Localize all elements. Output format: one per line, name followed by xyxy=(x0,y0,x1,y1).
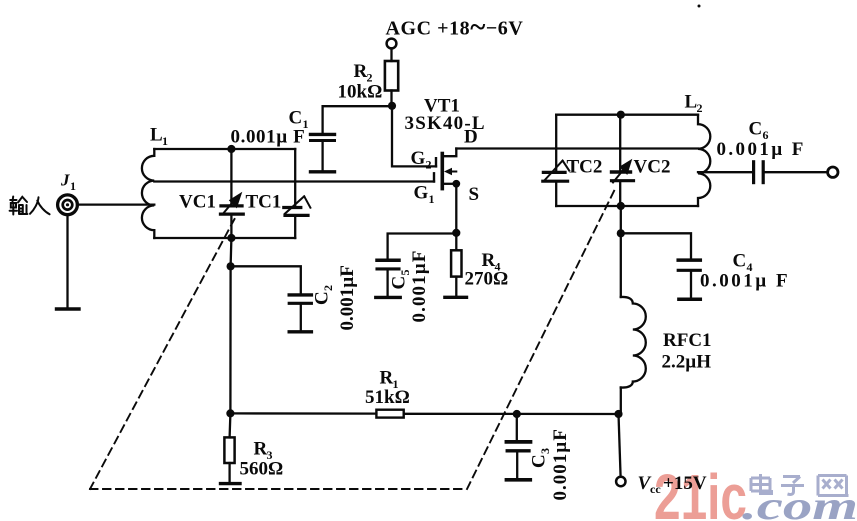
svg-text:0.001µF: 0.001µF xyxy=(337,265,358,330)
svg-text:2: 2 xyxy=(321,285,335,291)
svg-text:2.2µH: 2.2µH xyxy=(662,352,712,373)
svg-text:1: 1 xyxy=(162,134,168,148)
label C3 xyxy=(529,448,553,468)
svg-text:C: C xyxy=(289,108,303,129)
watermark 21ic xyxy=(654,461,747,521)
node tank2 top xyxy=(617,111,625,119)
svg-text:L: L xyxy=(150,125,163,146)
svg-text:TC2: TC2 xyxy=(567,157,603,178)
watermark 电子网 xyxy=(751,474,849,496)
svg-text:1: 1 xyxy=(70,179,76,193)
svg-text:S: S xyxy=(469,184,480,205)
value 0.001uF (C3) xyxy=(550,428,571,500)
ground (C1) xyxy=(311,170,335,173)
label C5 xyxy=(389,270,413,290)
svg-text:D: D xyxy=(464,127,478,148)
label R1 xyxy=(380,368,399,392)
label AGC +18~-6V xyxy=(386,11,524,43)
node C3 branch xyxy=(513,410,521,418)
wire dashed gang right xyxy=(467,186,617,489)
wire tank bottom rail xyxy=(154,237,295,239)
wire dashed gang left xyxy=(90,219,235,489)
label VT1 xyxy=(424,96,460,117)
node C2 branch xyxy=(227,262,235,270)
label RFC1 xyxy=(663,330,712,351)
svg-text:0.001µ F: 0.001µ F xyxy=(231,127,306,148)
ground (C5) xyxy=(376,296,400,299)
label C1 xyxy=(289,108,309,132)
ground (R3) xyxy=(221,482,241,485)
wire tank2 top rail xyxy=(556,114,698,116)
resistor R4 xyxy=(451,233,461,296)
label 输入 xyxy=(10,197,50,215)
node tank bottom xyxy=(227,234,235,242)
svg-text:J: J xyxy=(60,171,70,190)
capacitor C4 xyxy=(621,233,701,297)
value 0.001uF (C6) xyxy=(717,139,806,160)
label S xyxy=(469,184,480,205)
node bottom rail left xyxy=(226,409,234,417)
value 0.001uF (C4) xyxy=(700,271,790,292)
ground (R4) xyxy=(445,296,467,299)
value 2.2uH xyxy=(662,352,712,373)
wire bottom rail left segment xyxy=(230,412,376,415)
node tank2 bottom xyxy=(617,202,625,210)
svg-text:C: C xyxy=(749,119,763,140)
node R2/C1 junction xyxy=(388,102,396,110)
capacitor C6 xyxy=(698,162,827,183)
capacitor C5 xyxy=(377,234,456,296)
svg-text:RFC1: RFC1 xyxy=(663,330,712,351)
svg-text:R: R xyxy=(254,439,268,460)
wire left vertical xyxy=(230,238,231,413)
label C4 xyxy=(733,251,753,275)
inductor L1 xyxy=(142,149,154,238)
svg-text:VC2: VC2 xyxy=(634,157,671,178)
svg-text:R: R xyxy=(380,368,394,389)
stray dot xyxy=(698,5,701,8)
value 51k ohm xyxy=(365,387,410,408)
node C4 branch xyxy=(617,229,625,237)
svg-text:R: R xyxy=(354,61,368,82)
label G1 xyxy=(414,183,435,207)
resistor R2 xyxy=(385,48,398,105)
label R2 xyxy=(354,61,373,85)
svg-text:G: G xyxy=(414,183,429,204)
terminal AGC xyxy=(387,39,397,49)
wire G2 feed xyxy=(392,106,436,167)
label C2 xyxy=(312,285,336,305)
svg-text:C: C xyxy=(733,251,747,272)
svg-text:+15V: +15V xyxy=(663,473,707,494)
ground (C2) xyxy=(289,330,311,333)
svg-text:270Ω: 270Ω xyxy=(465,269,509,290)
label Vcc +15V xyxy=(638,473,707,496)
label 3SK40-L xyxy=(405,113,486,134)
wire J1 to L1 tap xyxy=(77,203,154,205)
value 270 ohm xyxy=(465,269,509,290)
capacitor C3 xyxy=(506,414,530,478)
wire G1 rail xyxy=(154,180,434,182)
svg-text:L: L xyxy=(685,92,698,113)
svg-text:G: G xyxy=(411,148,426,169)
value 560 ohm xyxy=(240,459,284,480)
inductor L2 xyxy=(698,115,710,206)
terminal output xyxy=(828,167,838,177)
label TC2 xyxy=(567,157,603,178)
node RFC1/Vcc junction xyxy=(614,410,622,418)
svg-text:0.001µ F: 0.001µ F xyxy=(700,271,790,292)
svg-text:2: 2 xyxy=(697,101,703,115)
svg-text:1: 1 xyxy=(429,192,435,206)
svg-text:560Ω: 560Ω xyxy=(240,459,284,480)
resistor R3 xyxy=(224,413,234,482)
capacitor TC2 xyxy=(543,115,569,206)
wire source down xyxy=(455,184,457,233)
svg-text:0.001µF: 0.001µF xyxy=(550,428,571,500)
label VC1 xyxy=(179,192,216,213)
wire J1 to ground xyxy=(66,214,68,308)
capacitor TC1 xyxy=(284,149,311,238)
node tank top xyxy=(227,145,235,153)
svg-text:0.001µ F: 0.001µ F xyxy=(717,139,806,160)
label R4 xyxy=(482,250,501,274)
value 0.001uF (C1) xyxy=(231,127,306,148)
capacitor C1 xyxy=(311,106,393,170)
label L2 xyxy=(685,92,703,116)
inductor RFC1 xyxy=(621,233,646,414)
value 10k ohm xyxy=(338,82,383,103)
svg-text:cc: cc xyxy=(650,482,661,496)
svg-text:51kΩ: 51kΩ xyxy=(365,387,410,408)
wire drain rail xyxy=(456,147,698,149)
resistor R1 xyxy=(376,410,403,418)
ground (J1) xyxy=(57,307,80,310)
svg-text:10kΩ: 10kΩ xyxy=(338,82,383,103)
value 0.001uF (C2) xyxy=(337,265,358,330)
ground (C3) xyxy=(506,478,530,482)
connector J1 xyxy=(58,195,78,215)
svg-text:C: C xyxy=(389,276,410,290)
wire to Vcc terminal xyxy=(619,414,621,477)
label J1 xyxy=(60,171,76,194)
label D xyxy=(464,127,478,148)
wire tank2 bottom to C4 node xyxy=(620,206,622,233)
svg-text:0.001µF: 0.001µF xyxy=(409,249,430,322)
watermark .com xyxy=(742,483,857,521)
capacitor VC2 xyxy=(612,115,634,206)
wire tank top rail xyxy=(154,148,295,150)
svg-text:VC1: VC1 xyxy=(179,192,216,213)
svg-text:C: C xyxy=(312,291,333,305)
transistor VT1 xyxy=(434,149,456,189)
wire bottom rail right segment xyxy=(404,413,619,416)
label L1 xyxy=(150,125,168,149)
capacitor VC1 xyxy=(221,149,244,238)
svg-text:TC1: TC1 xyxy=(246,192,282,213)
capacitor C2 xyxy=(231,266,312,330)
label VC2 xyxy=(634,157,671,178)
value 0.001uF (C5) xyxy=(409,249,430,322)
node source xyxy=(452,180,460,188)
node source/R4/C5 xyxy=(452,229,460,237)
svg-text:2: 2 xyxy=(426,158,432,172)
ground (C4) xyxy=(679,297,700,301)
label R3 xyxy=(254,439,273,463)
label TC1 xyxy=(246,192,282,213)
terminal Vcc xyxy=(616,477,625,486)
wire dashed gang bottom xyxy=(90,488,467,490)
label C6 xyxy=(749,119,769,143)
wire tank2 bottom rail xyxy=(556,205,698,207)
label G2 xyxy=(411,148,432,172)
svg-text:C: C xyxy=(529,454,550,468)
